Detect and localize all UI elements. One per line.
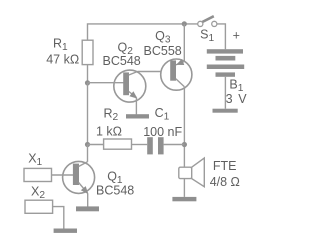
capacitor C1 — [147, 137, 184, 154]
node V+ / Q3 emitter junction — [182, 21, 187, 26]
wire Q3 emitter to V+ rail — [183, 24, 185, 62]
svg-text:BC548: BC548 — [96, 183, 134, 197]
resistor R2 — [88, 139, 148, 149]
svg-text:1 kΩ: 1 kΩ — [96, 124, 122, 138]
transistor Q2 — [88, 70, 146, 114]
svg-text:100 nF: 100 nF — [143, 125, 182, 139]
node C1 / speaker junction — [182, 142, 187, 147]
ground speaker — [172, 197, 196, 201]
ground Q2 emitter — [126, 114, 149, 118]
speaker FTE — [179, 158, 205, 197]
wire Q2 base — [88, 82, 124, 84]
svg-text:FTE: FTE — [213, 159, 237, 173]
transistor Q1 — [52, 161, 95, 206]
ground Q1 emitter — [76, 206, 99, 211]
svg-text:4/8 Ω: 4/8 Ω — [210, 175, 240, 189]
ground X2 — [54, 229, 77, 233]
wire node to R2 node — [87, 83, 89, 145]
wire Q3 collector down to speaker — [183, 87, 185, 167]
wire switch to battery positive — [217, 24, 226, 49]
node R2 / Q1 collector junction — [85, 142, 90, 147]
wire speaker to ground — [183, 179, 185, 197]
svg-text:3 V: 3 V — [226, 92, 248, 106]
transistor Q3 — [161, 59, 192, 90]
svg-text:BC558: BC558 — [144, 44, 182, 58]
terminal X2 — [25, 200, 64, 228]
wire Q1 collector riser — [87, 145, 89, 162]
svg-text:BC548: BC548 — [103, 54, 141, 68]
battery B1 — [207, 49, 244, 108]
node R1 bottom / Q2 base junction — [85, 80, 90, 85]
switch S1 — [198, 16, 217, 26]
wire X1 to Q1 base — [52, 174, 74, 176]
terminal X1 — [24, 168, 52, 181]
wire Q2 collector to Q3 base — [138, 71, 171, 73]
svg-text:47 kΩ: 47 kΩ — [46, 53, 79, 67]
svg-text:+: + — [233, 29, 240, 43]
ground battery negative — [213, 109, 238, 113]
resistor R1 — [82, 40, 93, 82]
wire V+ top rail from R1 to switch — [88, 24, 198, 40]
